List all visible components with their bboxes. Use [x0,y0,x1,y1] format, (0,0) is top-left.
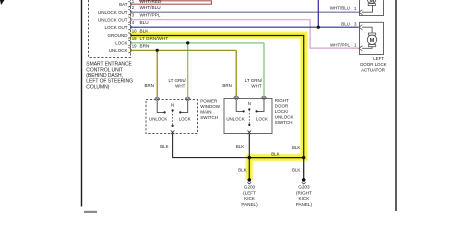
svg-text:MAIN: MAIN [200,110,211,115]
svg-text:PANEL): PANEL) [296,202,313,207]
svg-text:LOCK OUT: LOCK OUT [104,25,127,30]
svg-text:WHT: WHT [175,83,185,88]
svg-text:LOCK: LOCK [256,116,268,121]
svg-text:LOCK/: LOCK/ [275,109,289,114]
svg-text:KICK: KICK [244,196,256,201]
svg-text:WHT/RED: WHT/RED [140,0,162,4]
svg-text:WINDOW: WINDOW [200,104,220,109]
svg-text:UNLOCK: UNLOCK [149,117,167,122]
svg-text:UNLOCK OUT: UNLOCK OUT [98,10,128,15]
svg-text:SWITCH: SWITCH [275,120,293,125]
svg-text:(RIGHT: (RIGHT [296,190,312,195]
svg-text:WHT: WHT [251,83,261,88]
svg-text:BAT: BAT [119,2,128,7]
svg-text:WHT/PPL: WHT/PPL [330,42,350,47]
svg-text:SWITCH: SWITCH [200,115,218,120]
svg-text:LT GRN/WHT: LT GRN/WHT [140,36,169,41]
svg-text:KICK: KICK [299,196,311,201]
svg-text:BLU: BLU [140,20,150,25]
svg-text:10: 10 [132,29,137,34]
svg-text:BLK: BLK [140,29,150,34]
svg-text:M: M [370,38,375,44]
svg-text:DOOR LOCK: DOOR LOCK [360,62,386,67]
svg-text:UNLOCK OUT: UNLOCK OUT [98,17,128,22]
svg-text:POWER: POWER [200,99,218,104]
svg-text:BLK: BLK [292,145,300,150]
svg-text:BLK: BLK [238,168,246,173]
svg-text:DOOR: DOOR [275,104,289,109]
svg-text:UNLOCK: UNLOCK [226,116,244,121]
svg-text:ACTUATOR: ACTUATOR [361,68,385,73]
svg-text:BLK: BLK [292,168,300,173]
svg-text:LEFT: LEFT [373,56,384,61]
svg-text:BLK: BLK [160,144,168,149]
svg-text:LOCK: LOCK [115,41,127,46]
svg-text:M: M [369,0,374,5]
svg-text:UNLOCK: UNLOCK [109,48,128,53]
svg-text:N: N [248,101,251,106]
svg-text:G200: G200 [244,185,256,190]
svg-text:LOCK: LOCK [179,117,191,122]
svg-text:BRN: BRN [222,83,232,88]
svg-text:G203: G203 [298,185,310,190]
svg-text:(LEFT: (LEFT [243,190,256,195]
svg-text:BLK: BLK [271,151,279,156]
svg-text:BRN: BRN [144,83,154,88]
svg-text:WHT/BLU: WHT/BLU [330,5,350,10]
svg-text:COLUMN): COLUMN) [86,84,109,90]
svg-text:RIGHT: RIGHT [275,98,289,103]
svg-text:PANEL): PANEL) [241,202,258,207]
svg-text:BRN: BRN [140,43,150,48]
svg-text:WHT/BLU: WHT/BLU [140,5,162,10]
svg-text:WHT/PPL: WHT/PPL [140,13,161,18]
svg-text:UNLOCK: UNLOCK [275,115,294,120]
svg-text:18: 18 [132,36,137,41]
svg-text:BLK: BLK [236,144,244,149]
svg-text:BLU: BLU [341,21,350,26]
svg-text:N: N [171,102,174,107]
svg-text:GROUND: GROUND [108,33,129,38]
svg-text:19: 19 [132,43,137,48]
